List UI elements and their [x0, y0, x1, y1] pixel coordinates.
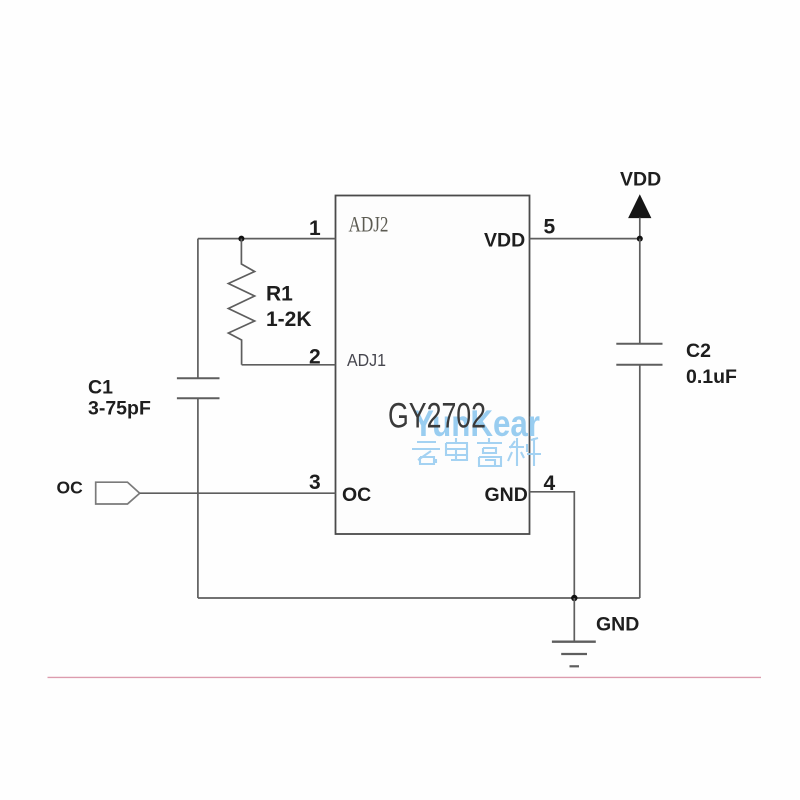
ground symbol — [552, 598, 596, 666]
svg-text:0.1uF: 0.1uF — [686, 366, 737, 388]
watermark 云电高科 (outlined glyph approximations) — [412, 438, 541, 466]
junction dot pin4 / bottom wire — [571, 595, 577, 601]
IC U1 GY2702 box — [336, 196, 530, 535]
divider line (pink) — [48, 676, 762, 678]
svg-text:GY2702: GY2702 — [388, 396, 486, 436]
svg-text:C1: C1 — [88, 377, 113, 399]
wire pin4 (horizontal then down) — [530, 492, 575, 598]
svg-text:1-2K: 1-2K — [266, 308, 312, 331]
resistor R1 (zigzag with leads) — [228, 239, 254, 365]
wire bottom horizontal — [198, 597, 640, 599]
svg-text:ADJ1: ADJ1 — [347, 350, 386, 370]
wire left vertical lower (C1 down to bottom wire) — [197, 398, 199, 598]
junction dot pin1 / R1 — [238, 236, 244, 242]
capacitor C1 plates — [177, 378, 220, 398]
svg-text:VDD: VDD — [620, 169, 661, 191]
wire VDD stub — [639, 218, 641, 239]
svg-text:GND: GND — [485, 484, 528, 506]
svg-text:C2: C2 — [686, 340, 711, 362]
svg-text:3: 3 — [309, 471, 321, 494]
junction dot pin5 / VDD / C2 — [637, 236, 643, 242]
svg-text:3-75pF: 3-75pF — [88, 398, 151, 420]
svg-text:OC: OC — [342, 484, 371, 506]
svg-text:ADJ2: ADJ2 — [349, 212, 389, 237]
wire pin1 horizontal — [198, 238, 336, 240]
wire left vertical upper (pin1 corner down to C1) — [197, 239, 199, 379]
wire pin3 horizontal — [140, 492, 336, 494]
svg-text:GND: GND — [596, 614, 639, 636]
svg-text:5: 5 — [544, 216, 556, 239]
wire right vertical upper (dot down to C2) — [639, 239, 641, 344]
port flag OC — [96, 482, 140, 504]
power VDD symbol (triangle) — [629, 195, 651, 217]
svg-text:VDD: VDD — [484, 230, 525, 252]
wire right vertical lower (C2 down to bottom wire) — [639, 365, 641, 598]
wire pin5 horizontal — [530, 238, 640, 240]
wire pin2 horizontal — [242, 364, 336, 366]
capacitor C2 plates — [616, 344, 662, 365]
svg-text:1: 1 — [309, 217, 321, 240]
svg-text:R1: R1 — [266, 283, 293, 306]
svg-text:OC: OC — [57, 478, 84, 498]
